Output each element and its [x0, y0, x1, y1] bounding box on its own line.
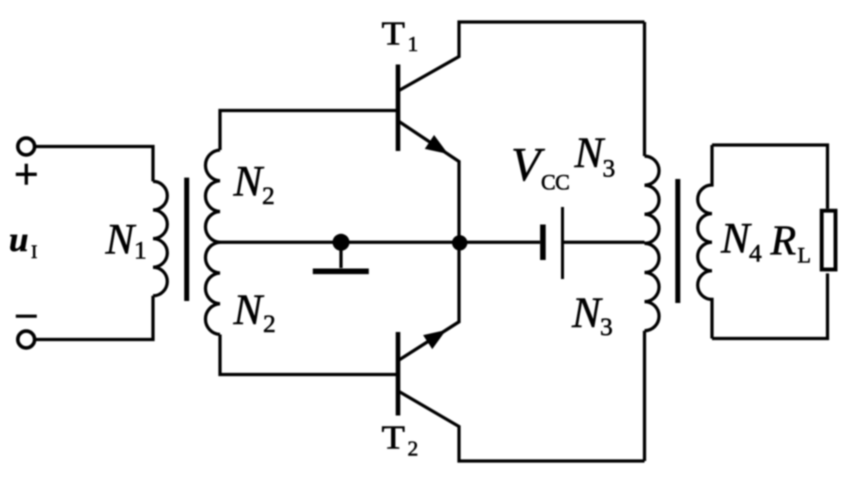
T1 emitter arrow [426, 136, 447, 153]
svg-text:V: V [511, 139, 545, 192]
ground node dot [333, 234, 350, 251]
wire top terminal to N1 [35, 147, 153, 182]
wire battery to N3 center tap [564, 241, 645, 244]
svg-text:I: I [31, 242, 37, 263]
svg-text:u: u [9, 220, 28, 259]
svg-text:T: T [382, 16, 406, 53]
svg-text:1: 1 [134, 236, 147, 265]
svg-text:T: T [382, 420, 406, 457]
svg-text:N: N [233, 287, 265, 334]
wire N3 bottom to T2 collector [643, 331, 646, 461]
battery short bar (negative) [540, 225, 546, 261]
resistor RL [822, 211, 836, 270]
svg-text:L: L [798, 243, 811, 268]
wire N1 to bottom terminal [35, 296, 153, 340]
plus sign [16, 164, 37, 185]
emitter junction node dot [452, 235, 467, 250]
svg-text:2: 2 [408, 437, 419, 461]
T1 collector [399, 22, 645, 91]
svg-text:3: 3 [600, 312, 613, 341]
battery long bar (positive) [561, 207, 564, 279]
wire N4 to RL top [712, 145, 828, 209]
winding N2 bottom [205, 242, 220, 334]
core bar output transformer [675, 179, 680, 303]
svg-text:N: N [233, 159, 265, 206]
svg-text:1: 1 [408, 32, 419, 56]
winding N4 [698, 145, 712, 339]
svg-text:4: 4 [749, 239, 762, 268]
svg-text:N: N [571, 290, 603, 337]
svg-text:R: R [770, 218, 797, 264]
minus sign [16, 315, 37, 318]
ground bar [313, 268, 369, 274]
winding N1 [153, 181, 167, 295]
svg-text:2: 2 [262, 181, 275, 210]
svg-text:3: 3 [603, 154, 616, 183]
T2 emitter [399, 242, 459, 360]
svg-text:2: 2 [263, 309, 276, 338]
wire N2 top to T1 base [220, 111, 397, 151]
T2 collector [399, 392, 645, 462]
ground stub [339, 242, 342, 268]
svg-text:N: N [720, 216, 752, 263]
winding N3 bottom [645, 243, 660, 330]
input terminal top (circle) [18, 138, 35, 155]
svg-text:N: N [105, 217, 137, 264]
wire N2 bottom to T2 base [220, 335, 397, 375]
transistor T2 base bar [396, 332, 401, 416]
T1 emitter [399, 122, 459, 243]
core bar input transformer [184, 178, 189, 301]
input terminal bottom (circle) [18, 331, 35, 348]
svg-text:N: N [574, 130, 606, 177]
T2 emitter arrow [424, 331, 445, 349]
wire RL to N4 bottom [712, 273, 828, 338]
wire center tap to battery [220, 241, 540, 244]
winding N3 top [645, 156, 660, 243]
right branch: T1 collector down to N3 top [643, 22, 646, 156]
winding N2 top [205, 150, 220, 242]
transistor T1 base bar [396, 65, 401, 152]
svg-text:CC: CC [541, 170, 569, 195]
